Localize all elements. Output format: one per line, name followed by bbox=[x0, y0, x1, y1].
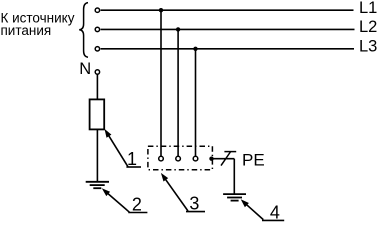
callout label 3 with underline bbox=[186, 194, 205, 214]
callout label 2 with underline bbox=[128, 194, 147, 214]
svg-text:2: 2 bbox=[132, 194, 142, 214]
junction dot node PE bbox=[209, 157, 213, 161]
svg-text:N: N bbox=[79, 60, 91, 78]
callout arrow 4 bbox=[241, 199, 264, 219]
label "К источнику питания" bbox=[1, 10, 75, 38]
curly brace bbox=[79, 3, 88, 58]
svg-text:L2: L2 bbox=[359, 18, 377, 36]
callout arrow 3 bbox=[161, 173, 188, 211]
component 3: arrester unit enclosure (dash-dot box) bbox=[148, 146, 213, 170]
callout arrow 1 bbox=[105, 129, 129, 167]
arrester terminal b bbox=[176, 156, 181, 161]
svg-text:4: 4 bbox=[270, 202, 280, 222]
wire L1 bbox=[101, 9, 354, 11]
terminal circle L2 bbox=[95, 27, 99, 31]
terminal circle L3 bbox=[95, 47, 99, 51]
wire L2 bbox=[101, 28, 355, 30]
wire from L2 down to arrester b bbox=[177, 29, 179, 156]
component 1: breakdown fuse (rectangle) bbox=[90, 99, 105, 129]
callout arrow 2 bbox=[102, 188, 130, 212]
terminal circle N bbox=[95, 70, 99, 74]
PE conductor break symbol (slash with tick) bbox=[221, 152, 236, 166]
wire component 1 to ground electrode 2 bbox=[96, 129, 98, 181]
arrester terminal a bbox=[159, 156, 164, 161]
svg-text:1: 1 bbox=[127, 149, 137, 169]
wire N down to component 1 bbox=[96, 74, 98, 99]
arrester terminal c bbox=[193, 156, 198, 161]
junction dot on L3 bbox=[193, 47, 197, 51]
wire L3 bbox=[101, 48, 354, 50]
callout label 4 with underline bbox=[262, 202, 284, 222]
junction dot on L2 bbox=[176, 27, 180, 31]
wire from L3 down to arrester c bbox=[195, 49, 197, 157]
ground electrode 4 (earth symbol) bbox=[223, 194, 246, 201]
svg-text:L3: L3 bbox=[359, 37, 377, 55]
wire PE down to ground 4 bbox=[233, 159, 235, 194]
wire PE horizontal bbox=[212, 158, 235, 160]
callout label 1 with underline bbox=[126, 149, 141, 169]
wire from L1 down to arrester a bbox=[160, 10, 162, 156]
svg-text:3: 3 bbox=[189, 194, 199, 214]
junction dot on L1 bbox=[159, 8, 163, 12]
terminal circle L1 bbox=[95, 8, 99, 12]
ground electrode 2 (earth symbol) bbox=[86, 182, 109, 188]
svg-text:PE: PE bbox=[242, 150, 265, 169]
svg-text:L1: L1 bbox=[359, 0, 377, 17]
svg-text:питания: питания bbox=[1, 23, 52, 38]
